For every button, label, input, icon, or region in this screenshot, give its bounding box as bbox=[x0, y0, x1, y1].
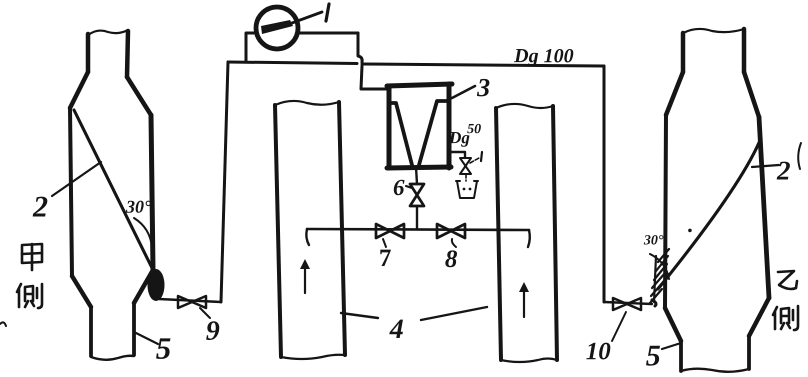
svg-text:9: 9 bbox=[206, 316, 220, 347]
svg-text:4: 4 bbox=[389, 314, 404, 345]
svg-text:30°: 30° bbox=[643, 233, 664, 248]
svg-text:2: 2 bbox=[32, 190, 48, 223]
svg-text:5: 5 bbox=[156, 331, 172, 366]
svg-text:2: 2 bbox=[776, 156, 791, 186]
svg-text:8: 8 bbox=[445, 246, 458, 273]
svg-text:10: 10 bbox=[586, 338, 612, 365]
svg-text:30°: 30° bbox=[125, 197, 152, 217]
svg-text:Dg 100: Dg 100 bbox=[513, 45, 573, 67]
svg-text:3: 3 bbox=[476, 73, 490, 102]
svg-text:50: 50 bbox=[467, 122, 481, 137]
svg-text:7: 7 bbox=[379, 245, 392, 272]
svg-text:5: 5 bbox=[646, 339, 661, 372]
svg-text:6: 6 bbox=[393, 175, 405, 200]
